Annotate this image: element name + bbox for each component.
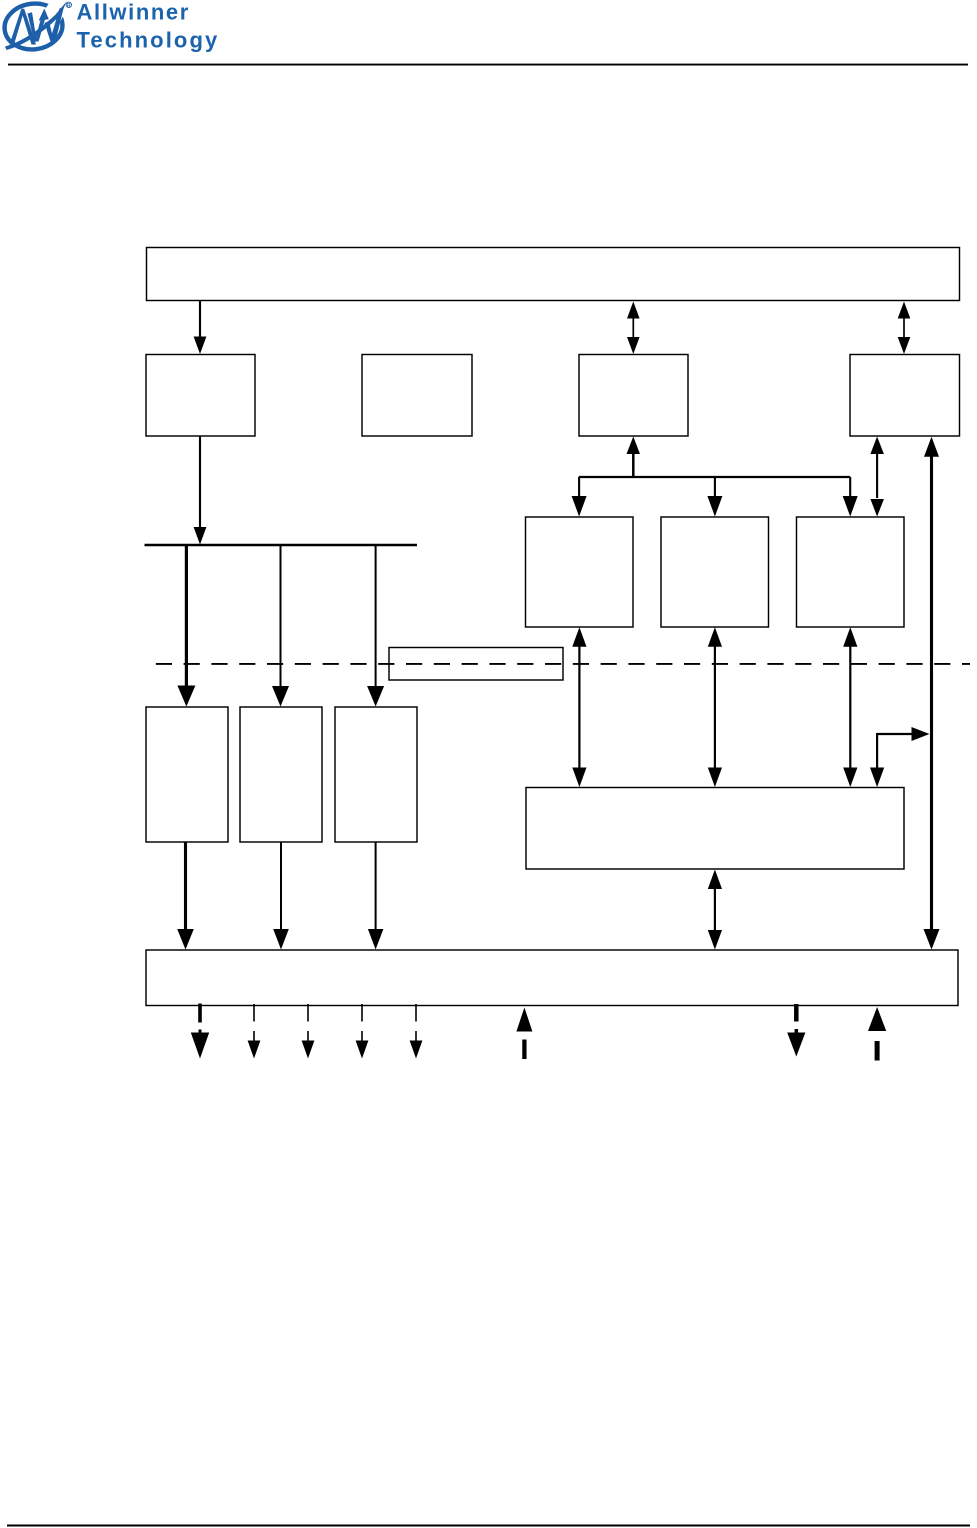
block lower-left boxC — [335, 707, 417, 842]
block bottom pad bus — [146, 950, 958, 1006]
left bus line — [145, 544, 418, 547]
pin stub bold output — [198, 1004, 202, 1023]
wire box7 to wide box (bidir) — [849, 645, 851, 770]
pin arrowhead x362 — [356, 1041, 369, 1059]
arrowhead into bottom bus — [177, 929, 194, 950]
wire boxB to bottom bus — [280, 842, 282, 931]
wire boxA to bottom bus (bold) — [184, 842, 187, 931]
arrowhead into bottom bus — [368, 929, 384, 950]
block row2 box1 — [146, 355, 255, 437]
pin stem x362 — [361, 1031, 363, 1042]
pin stem bold output — [199, 1030, 202, 1037]
pin stub x416 — [415, 1004, 417, 1022]
wire bus to boxB — [280, 545, 282, 687]
wire box1 to left bus — [199, 436, 201, 529]
registered trademark mark — [66, 2, 71, 7]
pin arrowhead x308 — [302, 1041, 315, 1059]
pin stub input right — [875, 1041, 880, 1061]
block small boundary box — [389, 648, 563, 681]
arrowhead into boxB — [272, 686, 289, 707]
logo letter W — [28, 12, 46, 41]
pin arrowhead x254 — [248, 1041, 261, 1059]
block lower-left boxB — [240, 707, 322, 842]
block row2 box4 — [850, 355, 960, 437]
wire box5 to wide box (bidir) — [578, 645, 580, 770]
wire bus to boxC — [375, 545, 377, 687]
arrowhead down into wide box — [870, 768, 884, 788]
wire box4 to box7 (bidir) — [876, 452, 878, 498]
footer rule — [7, 1525, 970, 1527]
pin arrowhead bold output right — [787, 1033, 805, 1057]
arrowhead up into box4 — [870, 437, 884, 455]
arrowhead down into wide box — [843, 768, 857, 788]
arrowhead into boxC — [367, 686, 384, 707]
block top system bus — [147, 248, 960, 301]
pin arrowhead bold output — [191, 1033, 209, 1059]
arrowhead into box1 — [194, 337, 207, 355]
logo swoosh — [5, 16, 57, 51]
logo W mid arrowhead — [39, 9, 49, 21]
arrowhead up into box4 — [924, 437, 939, 457]
arrowhead into bottom bus — [273, 929, 289, 950]
pin stem x254 — [253, 1031, 255, 1042]
branch wire down to wide box — [876, 733, 878, 769]
wire top-bus to box1 — [199, 301, 201, 339]
arrowhead up into wide box — [708, 870, 722, 890]
svg-text:Technology: Technology — [77, 28, 220, 53]
distribution line — [579, 476, 850, 478]
block lower-left boxA — [146, 707, 228, 842]
long wire box4 to bottom bus (bold) — [930, 455, 933, 930]
svg-text:R: R — [67, 3, 71, 9]
arrowhead down into wide box — [572, 768, 586, 788]
wire boxC to bottom bus — [375, 842, 377, 931]
pin arrowhead x416 — [410, 1041, 423, 1059]
arrowhead right into long wire — [912, 727, 930, 741]
pin stub x362 — [361, 1004, 363, 1022]
branch wire to long line — [877, 733, 913, 735]
svg-text:Allwinner: Allwinner — [77, 0, 190, 25]
arrowhead into box6 — [707, 496, 722, 517]
arrowhead onto left bus — [194, 527, 207, 545]
header rule — [8, 64, 968, 66]
pin stem bold output right — [795, 1029, 799, 1034]
block wide middle box — [526, 788, 904, 870]
pin stem x416 — [415, 1031, 417, 1042]
wire bus to boxA (bold) — [185, 545, 188, 687]
arrowhead down into box3 — [627, 337, 640, 354]
logo swoosh arrowhead — [51, 1, 67, 20]
dashed power-domain boundary line — [156, 663, 970, 665]
block row2 box3 — [579, 355, 688, 437]
wire box6 to wide box (bidir) — [714, 645, 716, 770]
wire dist to box5 — [578, 477, 580, 497]
logo ring gap (white) — [45, 0, 69, 22]
wire dist to box6 — [714, 477, 716, 497]
block row2 box2 — [362, 355, 472, 437]
wire wide box to bottom bus (bidir) — [714, 886, 716, 932]
block mid box5 — [526, 517, 634, 627]
wire top-bus to box3 (bidir) — [632, 317, 634, 339]
arrowhead down into box7 — [870, 499, 884, 517]
block mid box7 — [797, 517, 905, 627]
pin arrowhead input up — [516, 1008, 532, 1032]
wire top-bus to box4 (bidir) — [903, 317, 905, 339]
arrowhead up into top bus — [627, 302, 640, 319]
arrowhead down into bottom bus — [708, 930, 722, 950]
wire dist to box7 — [849, 477, 851, 497]
logo ellipse ring — [2, 0, 65, 52]
arrowhead up into box7 — [843, 627, 857, 647]
pin stub input — [522, 1040, 526, 1060]
pin stub x254 — [253, 1004, 255, 1022]
pin arrowhead input up right — [868, 1007, 886, 1031]
arrowhead into box5 — [572, 496, 587, 517]
arrowhead down into wide box — [708, 768, 722, 788]
logo letter A — [10, 9, 37, 45]
arrowhead up into top bus — [898, 302, 911, 319]
pin stub x308 — [307, 1004, 309, 1022]
arrowhead up into box6 — [708, 627, 722, 647]
pin stub bold output right — [794, 1004, 799, 1022]
wire dist-line to box3 — [632, 454, 635, 479]
pin stem x308 — [307, 1031, 309, 1042]
arrowhead up into box5 — [572, 627, 586, 647]
arrowhead into boxA — [177, 686, 195, 707]
arrowhead into box7 — [843, 496, 858, 517]
arrowhead up into box3 — [627, 437, 641, 455]
arrowhead down into bottom bus — [924, 929, 940, 950]
block mid box6 — [661, 517, 769, 627]
arrowhead down into box4 — [898, 337, 911, 354]
